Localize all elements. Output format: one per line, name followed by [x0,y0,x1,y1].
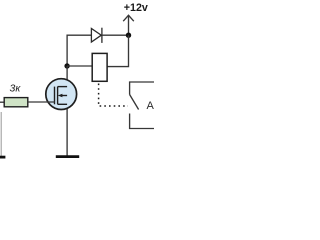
power arrow +12V [123,15,134,35]
MOSFET Q1 gate bar [54,87,56,105]
relay contact: blade [130,95,139,110]
svg-text:3к: 3к [10,82,22,94]
wire: left stub into resistor [0,101,4,103]
resistor R1 3k [4,98,28,107]
diode D1 [91,28,102,43]
wire: +12V rail down to relay coil right pin [107,35,128,66]
MOSFET Q1 channel bar [57,87,59,105]
wire: drain vertical (node to MOSFET) and source vertical to ground [66,66,68,156]
wire: diode cathode to +12V junction [102,34,129,36]
MOSFET Q1 source finger [58,103,68,105]
relay contact: upper terminal wire [130,82,154,95]
relay coil K1 [92,53,107,81]
MOSFET Q1 drain finger [58,86,68,88]
wire: left net drop (cropped at edge) [0,112,2,156]
MOSFET Q1 body [46,79,77,110]
wire: drain node to relay coil left pin [67,65,92,67]
ground (left, cropped) [0,156,5,159]
node: +12V rail junction [126,33,131,38]
MOSFET Q1 body finger with arrow [58,94,67,98]
svg-text:+12v: +12v [124,2,148,14]
node: drain junction [64,63,69,68]
wire: diode anode corner to drain node [67,35,91,66]
ground (MOSFET source) [56,155,79,158]
relay contact: lower terminal wire [130,114,154,129]
svg-text:A: A [147,100,155,112]
wire: resistor to MOSFET gate [28,101,55,103]
actuation dotted link: coil to contact [99,84,128,107]
